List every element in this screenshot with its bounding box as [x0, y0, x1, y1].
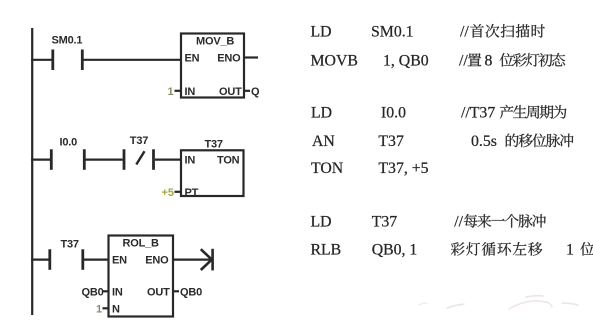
comment: 8-bit lamp initial state [500, 53, 565, 67]
svg-text:LD: LD [311, 214, 332, 231]
NC contact T37 slash [136, 151, 144, 164]
NC contact T37 bar 2 [152, 149, 155, 170]
svg-text:MOVB: MOVB [311, 53, 358, 70]
left power rail [31, 28, 33, 315]
svg-text:T37: T37 [205, 138, 223, 150]
svg-text:QB0: QB0 [82, 286, 104, 298]
rung 1 wire: rail to contact SM0.1 [31, 59, 52, 61]
svg-text:+5: +5 [162, 187, 175, 199]
comment: first scan [470, 24, 545, 38]
output arrow chevron upper leg [201, 249, 212, 259]
svg-text:RLB: RLB [311, 242, 342, 259]
svg-text:1: 1 [96, 303, 102, 315]
svg-text:PT: PT [185, 187, 199, 199]
svg-text:LD: LD [311, 24, 332, 41]
svg-text:I0.0: I0.0 [381, 105, 406, 122]
svg-text://: // [459, 53, 468, 70]
comment: set [468, 53, 482, 66]
rung 2 wire: I0.0 to NC contact T37 [86, 159, 123, 161]
svg-text:ENO: ENO [217, 53, 241, 65]
svg-text:AN: AN [312, 133, 335, 150]
svg-text:MOV_B: MOV_B [196, 35, 234, 47]
comment: lamps rotate left (part 2) [580, 242, 593, 256]
comment: T37 generates period [500, 105, 567, 119]
ROL_B OUT output dash to QB0 [173, 290, 179, 292]
svg-text:T37, +5: T37, +5 [378, 160, 428, 177]
svg-text:1: 1 [566, 242, 574, 259]
MOV_B OUT output dash to Q [244, 90, 250, 92]
svg-text:ENO: ENO [145, 254, 169, 266]
output arrow chevron lower leg [201, 260, 212, 270]
svg-text:8: 8 [485, 53, 493, 70]
svg-text:OUT: OUT [219, 86, 242, 98]
svg-text:TON: TON [217, 155, 240, 167]
svg-text:QB0: QB0 [180, 286, 202, 298]
contact T37 bar 2 [81, 249, 84, 269]
NC contact T37 bar 1 [123, 149, 126, 170]
svg-text://: // [460, 24, 469, 41]
MOV_B IN input dash from constant 1 [175, 90, 182, 92]
contact I0.0 bar 2 [83, 149, 86, 170]
svg-text:T37: T37 [61, 239, 79, 251]
svg-text:SM0.1: SM0.1 [52, 35, 83, 47]
rung 3 wire: rail to contact T37 [31, 259, 49, 261]
svg-text:Q: Q [251, 86, 260, 98]
contact I0.0 bar 1 [50, 149, 53, 170]
comment: every pulse [464, 214, 546, 228]
rung 1 wire: contact to MOV_B EN [84, 59, 182, 61]
svg-text:0.5s: 0.5s [471, 133, 497, 150]
svg-text:1, QB0: 1, QB0 [383, 53, 429, 70]
svg-text://: // [454, 214, 463, 231]
contact SM0.1 bar 1 [51, 50, 54, 71]
comment: lamps rotate left (part 1) [451, 242, 543, 256]
svg-text:T37: T37 [130, 135, 148, 147]
faint watermark smudges [419, 296, 578, 309]
rung 2 wire: rail to contact I0.0 [31, 159, 50, 161]
ROL_B N input dash from constant 1 [103, 307, 109, 309]
rung 3 wire: contact to ROL_B EN [84, 259, 109, 261]
svg-text:SM0.1: SM0.1 [371, 24, 414, 41]
svg-text:LD: LD [311, 105, 332, 122]
svg-text:EN: EN [185, 53, 200, 65]
svg-text://T37: //T37 [461, 105, 495, 122]
output arrow vertical bar [211, 249, 214, 271]
svg-text:OUT: OUT [147, 286, 170, 298]
MOV_B ENO output stub [244, 56, 258, 58]
svg-text:N: N [112, 303, 120, 315]
svg-text:IN: IN [185, 86, 196, 98]
svg-text:IN: IN [185, 155, 196, 167]
TON PT input dash from constant +5 [175, 191, 182, 193]
svg-text:QB0, 1: QB0, 1 [372, 242, 418, 259]
comment: 0.5s shift pulse [506, 134, 574, 148]
svg-text:I0.0: I0.0 [60, 137, 78, 149]
svg-text:IN: IN [112, 286, 123, 298]
contact T37 bar 1 [48, 249, 51, 269]
svg-text:T37: T37 [378, 133, 404, 150]
svg-text:1: 1 [168, 86, 174, 98]
ROL_B ENO output wire [173, 259, 210, 261]
svg-text:EN: EN [112, 254, 127, 266]
svg-text:TON: TON [311, 160, 344, 177]
box ROL_B outline [109, 236, 174, 317]
contact SM0.1 bar 2 [81, 50, 84, 71]
box MOV_B outline [181, 34, 244, 98]
svg-text:ROL_B: ROL_B [123, 237, 160, 249]
svg-text:T37: T37 [372, 214, 398, 231]
ROL_B IN input dash from QB0 [103, 290, 109, 292]
box TON outline [181, 150, 244, 196]
rung 2 wire: contact to TON box IN [155, 159, 181, 161]
